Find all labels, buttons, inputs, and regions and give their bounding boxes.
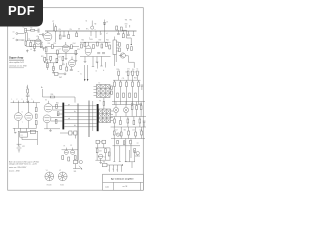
resistor R1 <box>25 28 27 46</box>
capacitor C21 <box>39 33 44 36</box>
svg-text:47k: 47k <box>127 68 130 70</box>
resistor R38 <box>138 80 140 104</box>
tube V3 <box>85 42 91 55</box>
svg-text:TB2: TB2 <box>103 162 106 164</box>
neon NE1 <box>91 21 97 30</box>
svg-text:1: 1 <box>12 99 13 101</box>
wire node A <box>26 30 38 32</box>
ground G2 <box>33 48 36 51</box>
svg-text:in1: in1 <box>13 31 15 33</box>
resistor R30 <box>50 94 54 98</box>
wire right lower <box>111 136 145 139</box>
resistor R57 <box>127 117 129 128</box>
svg-text:6v: 6v <box>80 74 82 76</box>
svg-text:R2: R2 <box>31 28 33 30</box>
svg-text:R74: R74 <box>62 64 65 66</box>
capacitor C15 <box>69 131 72 135</box>
tube V6 <box>14 103 22 121</box>
wire down pair <box>77 104 80 161</box>
svg-text:EL84: EL84 <box>60 185 63 187</box>
switch SW1 <box>73 160 82 163</box>
resistor R54 <box>140 104 143 110</box>
svg-text:B+: B+ <box>41 87 43 89</box>
svg-text:red: red <box>68 118 70 120</box>
wire pair W1 <box>88 101 91 138</box>
svg-text:c3: c3 <box>130 72 132 74</box>
resistor R3 <box>22 40 27 45</box>
resistor R32 <box>127 71 129 80</box>
resistor R81 <box>127 45 129 51</box>
svg-text:R33: R33 <box>134 78 137 80</box>
resistor R65 <box>134 149 136 153</box>
resistor R29 <box>27 85 29 93</box>
wire c15 link <box>60 133 75 139</box>
svg-text:voltages with 20k/V meter d.c.: voltages with 20k/V meter d.c. +-10% <box>9 162 37 165</box>
resistor R50 <box>35 114 37 118</box>
connector P1 <box>113 37 119 55</box>
wire CN1-CN2 link7 <box>64 126 97 128</box>
tube V4 <box>44 99 52 112</box>
wire B+ feed <box>43 89 76 103</box>
resistor R23 <box>119 43 121 47</box>
svg-text:in2: in2 <box>13 38 15 40</box>
wire tl link <box>27 33 41 45</box>
resistor R73 <box>62 56 64 60</box>
svg-text:R19: R19 <box>99 40 102 42</box>
resistor R76 <box>108 152 110 156</box>
resistor R26 <box>120 27 122 31</box>
svg-text:R21: R21 <box>106 39 109 41</box>
wire CN1-CN2 link1 <box>64 105 97 107</box>
connector bar CN1 <box>62 103 64 130</box>
svg-text:100k: 100k <box>90 39 93 41</box>
tick row t1 <box>118 71 140 73</box>
svg-text:220k: 220k <box>116 69 119 71</box>
svg-text:T2: T2 <box>99 83 101 85</box>
svg-text:R46: R46 <box>56 102 59 104</box>
wire lower left <box>13 121 37 132</box>
ground G8 <box>96 57 99 63</box>
ground G4 <box>56 54 59 61</box>
svg-text:D1: D1 <box>106 21 108 23</box>
resistor R8 <box>59 31 61 39</box>
resistor R61 <box>120 127 122 136</box>
resistor R4 <box>30 42 32 46</box>
wire header <box>11 101 41 103</box>
svg-text:BT1: BT1 <box>22 146 25 148</box>
resistor R27 <box>47 61 49 70</box>
svg-text:R12: R12 <box>54 43 57 45</box>
resistor R51 <box>35 121 37 129</box>
resistor R66 <box>30 130 35 133</box>
resistor R5 <box>34 44 36 48</box>
wire bend2 <box>125 56 134 68</box>
label bank2 <box>122 78 137 80</box>
resistor R78 <box>117 140 119 144</box>
resistor R18 <box>93 45 95 49</box>
svg-text:VR1: VR1 <box>74 171 77 173</box>
ground G7 <box>84 57 87 63</box>
resistor R6 <box>40 44 42 48</box>
resistor R35 <box>120 80 122 104</box>
tube base V2 diagram <box>58 172 67 181</box>
wire right mid <box>111 110 147 117</box>
resistor R36 <box>126 80 128 104</box>
title block frame <box>103 174 144 190</box>
wire net1 <box>26 46 43 48</box>
schematic title text <box>9 56 24 60</box>
resistor R19 <box>97 42 99 46</box>
wire bus drop2 <box>95 29 96 38</box>
svg-text:P1: P1 <box>99 100 101 102</box>
svg-text:e: e <box>139 72 140 74</box>
wire bus drop3 <box>100 31 102 35</box>
svg-text:6: 6 <box>22 111 23 113</box>
wire t2 stubs <box>94 87 97 96</box>
wire right lowest <box>113 139 141 146</box>
rectifier bridge cluster <box>96 140 106 148</box>
resistor R46 <box>56 102 59 108</box>
input jack J1 <box>16 33 25 35</box>
resistor R72 <box>56 57 61 63</box>
capacitor C9 <box>26 93 30 102</box>
wire arrow pair R <box>87 65 89 81</box>
wire tb2 <box>107 165 123 172</box>
svg-text:1M: 1M <box>78 29 81 31</box>
fuse F1 <box>64 145 69 154</box>
tube V5 <box>43 115 51 123</box>
svg-text:R16: R16 <box>82 40 85 42</box>
svg-text:47k: 47k <box>59 29 62 31</box>
wire top right stub <box>132 31 135 36</box>
svg-text:8u: 8u <box>137 68 139 70</box>
label PT <box>52 21 54 31</box>
svg-text:4k7: 4k7 <box>115 129 117 131</box>
resistor R28 <box>53 63 55 71</box>
resistor R44 <box>111 91 113 94</box>
resistor R24 <box>119 48 121 52</box>
svg-text:F2: F2 <box>70 145 72 147</box>
ground G5 <box>65 52 68 59</box>
wire right col down <box>125 150 135 168</box>
capacitor C22 <box>127 31 130 35</box>
resistor R64 <box>141 127 143 139</box>
svg-text:TR2: TR2 <box>129 19 132 21</box>
wire tube links <box>51 106 62 121</box>
resistor R79 <box>123 141 125 145</box>
svg-text:C1: C1 <box>23 27 25 29</box>
resistor R74 <box>60 64 65 69</box>
ground G6 <box>75 55 78 62</box>
svg-text:R15: R15 <box>77 49 80 51</box>
resistor R25 <box>116 26 118 30</box>
label bank1 <box>116 68 138 70</box>
title rule <box>9 59 24 61</box>
capacitor C6 <box>102 53 105 54</box>
tube V8 <box>69 57 76 67</box>
resistor R40 <box>123 93 125 98</box>
wire t3 stubs <box>111 111 114 121</box>
input jack J2 <box>16 39 25 41</box>
wire CN1-CN2 link5 <box>64 119 97 121</box>
wire bottom left loop <box>44 123 60 131</box>
tube base V1 diagram <box>45 172 54 181</box>
svg-text:25u: 25u <box>53 68 56 70</box>
svg-text:C4: C4 <box>59 48 61 50</box>
resistor R20 <box>101 44 103 48</box>
svg-text:valve amplifier 2x12: valve amplifier 2x12 <box>9 61 24 64</box>
wire fuse bus <box>62 148 79 151</box>
wire stage2 bottom <box>80 56 111 58</box>
wire CN1-CN2 link2 <box>64 108 97 110</box>
resistor R43 <box>111 86 113 89</box>
potentiometer VR1 <box>73 164 82 173</box>
svg-text:z1: z1 <box>106 33 108 35</box>
wire arrow pair L <box>84 65 86 81</box>
resistor R12 <box>52 43 57 49</box>
svg-text:.05: .05 <box>30 49 32 51</box>
resistor R31 <box>118 71 120 80</box>
svg-text:R14: R14 <box>73 43 76 45</box>
svg-text:SW2: SW2 <box>59 77 62 79</box>
B+ bus wire <box>45 30 137 32</box>
svg-text:2: 2 <box>17 99 18 101</box>
label arrows <box>78 71 82 76</box>
resistor R45 <box>103 98 105 110</box>
svg-text:ECC83: ECC83 <box>47 185 52 187</box>
ground G13 <box>99 159 102 164</box>
svg-text:1k5: 1k5 <box>132 69 134 71</box>
resistor R82 <box>131 47 133 51</box>
svg-text:grn: grn <box>68 104 70 106</box>
label tr marks <box>125 23 130 28</box>
wire mid band <box>44 60 67 67</box>
resistor R9 <box>68 31 70 39</box>
ground G12 <box>14 131 17 134</box>
wire bank bottom <box>112 104 142 106</box>
resistor R68 <box>68 157 70 161</box>
svg-text:gk: gk <box>42 42 44 44</box>
tube V2 <box>62 42 69 52</box>
resistor R41 <box>129 93 131 98</box>
capacitor C19 <box>96 149 102 153</box>
resistor R63 <box>135 127 137 136</box>
label right row <box>115 129 142 131</box>
svg-text:Ayr miniature amplifier: Ayr miniature amplifier <box>111 177 134 180</box>
svg-text:no. 58: no. 58 <box>123 186 128 188</box>
transistor Q1 <box>119 53 126 58</box>
svg-text:V1: V1 <box>46 170 48 172</box>
svg-text:osc: osc <box>137 143 139 145</box>
svg-text:E: E <box>117 169 118 171</box>
resistor R39 <box>117 93 119 98</box>
resistor R56 <box>120 117 122 125</box>
capacitor C1 <box>38 29 39 33</box>
svg-text:blu: blu <box>74 111 76 113</box>
battery BT1 <box>17 144 26 152</box>
svg-text:mains sec. 285-0-285V: mains sec. 285-0-285V <box>9 167 27 169</box>
svg-text:2k2: 2k2 <box>132 129 134 131</box>
lamp LP2 <box>123 107 128 112</box>
svg-text:issue 2 - 1958: issue 2 - 1958 <box>9 170 20 172</box>
terminal block TB2 <box>102 162 107 167</box>
resistor R70 <box>41 56 46 61</box>
svg-text:R30: R30 <box>51 94 54 96</box>
wire rect cluster <box>95 148 110 160</box>
label right row2 <box>117 141 131 143</box>
resistor R53 <box>136 106 138 110</box>
resistor R47 <box>57 112 59 116</box>
capacitor C16 <box>74 131 77 135</box>
capacitor C2 <box>63 31 66 36</box>
diode D2 <box>116 133 119 136</box>
resistor R48 <box>55 119 57 123</box>
resistor R15 <box>75 49 80 55</box>
svg-text:Super Amp: Super Amp <box>9 56 24 60</box>
wire bus drop1 <box>89 31 91 40</box>
svg-text:ht: ht <box>103 69 105 72</box>
PDF badge <box>0 0 43 27</box>
capacitor C10 <box>136 71 138 80</box>
label tb2 pins <box>108 169 117 171</box>
svg-text:R70: R70 <box>41 56 44 58</box>
wire drops to bottom <box>113 146 131 162</box>
svg-text:HT+: HT+ <box>86 29 89 31</box>
transformer T3 core <box>99 109 111 123</box>
resistor R71 <box>50 56 52 60</box>
wire CN1-CN2 link3 <box>64 112 97 114</box>
ground G11 <box>49 129 52 132</box>
connector bar CN2 <box>97 104 99 131</box>
capacitor C7 <box>117 30 120 35</box>
svg-text:3: 3 <box>22 99 23 101</box>
resistor R22 <box>109 45 111 49</box>
wire right low <box>111 126 147 128</box>
node dot2 <box>122 164 123 165</box>
switch SW2 <box>54 72 66 78</box>
svg-text:N: N <box>113 169 114 171</box>
svg-text:PT: PT <box>52 21 54 23</box>
ground G10 <box>26 101 29 104</box>
resistor R14 <box>71 43 76 49</box>
svg-text:V2: V2 <box>59 170 61 172</box>
capacitor C20 <box>105 149 107 153</box>
wire stage2 top <box>80 41 111 43</box>
wire CN1-CN2 link4 <box>64 115 97 117</box>
resistor R17 <box>84 43 86 47</box>
svg-text:22k: 22k <box>70 29 73 31</box>
wire relay top <box>18 131 38 146</box>
transformer T2 core <box>97 85 111 98</box>
label mid band <box>47 65 55 70</box>
resistor R69 <box>74 156 76 160</box>
label pins row <box>12 99 33 101</box>
ground G3 <box>46 54 49 61</box>
tube V1a <box>36 36 41 44</box>
svg-text:L: L <box>108 169 109 171</box>
resistor R77 <box>122 31 124 38</box>
border frame (decorative) <box>8 8 144 191</box>
resistor R16 <box>81 44 83 48</box>
wire W2 <box>92 101 94 131</box>
wire d1 down <box>105 28 108 43</box>
svg-text:d4: d4 <box>134 71 136 73</box>
resistor R13 <box>57 48 61 54</box>
resistor R67 <box>62 156 64 160</box>
subtitle rule <box>9 67 24 69</box>
resistor R11 <box>45 43 50 52</box>
resistor R58 <box>133 117 135 125</box>
ground G1 <box>26 50 29 53</box>
resistor R52 <box>131 104 134 110</box>
svg-text:C2: C2 <box>28 38 30 40</box>
svg-text:5: 5 <box>32 99 33 101</box>
relay K1 <box>20 132 28 137</box>
fuse F2 <box>70 145 74 154</box>
wire stage1 bottom <box>45 53 78 55</box>
resistor R42 <box>135 93 137 98</box>
resistor R34 <box>114 80 116 104</box>
label v6v7 <box>22 111 23 124</box>
label above bases <box>46 170 61 172</box>
capacitor C18 <box>70 67 73 71</box>
label link labels <box>68 104 76 127</box>
resistor R21 <box>106 43 108 47</box>
resistor R75 <box>66 67 68 71</box>
resistor R37 <box>132 80 134 104</box>
svg-text:R11: R11 <box>48 43 51 45</box>
wire CN1-CN2 link6 <box>64 122 97 124</box>
svg-text:C19: C19 <box>99 151 102 153</box>
resistor R59 <box>139 117 141 128</box>
capacitor C12 <box>141 85 144 90</box>
wire connector drops <box>115 55 117 67</box>
svg-text:R52: R52 <box>131 104 134 106</box>
capacitor C23 <box>42 47 44 50</box>
wire drops mid right <box>92 57 106 69</box>
svg-text:C11: C11 <box>122 78 125 80</box>
wire right top <box>112 102 145 108</box>
svg-text:7: 7 <box>22 122 23 124</box>
svg-text:R4: R4 <box>32 41 34 43</box>
wire stage1 top <box>45 46 79 48</box>
ground G9 <box>52 71 55 74</box>
resistor R60 <box>113 127 115 139</box>
wire bank top <box>113 79 141 81</box>
svg-text:K1: K1 <box>21 135 23 137</box>
lamp LP1 <box>113 107 118 112</box>
svg-text:V1: V1 <box>36 36 38 38</box>
svg-text:V4: V4 <box>45 99 47 101</box>
svg-text:PDF: PDF <box>8 3 35 18</box>
resistor R55 <box>114 117 116 128</box>
svg-text:C17: C17 <box>58 57 61 59</box>
svg-text:68k: 68k <box>124 130 127 132</box>
resistor R10 <box>76 31 78 37</box>
svg-text:scale: scale <box>105 186 109 188</box>
svg-text:0v: 0v <box>96 70 98 72</box>
resistor R33 <box>132 71 134 80</box>
resistor R80 <box>130 140 132 144</box>
resistor R2 <box>31 28 35 31</box>
svg-text:schematic rev 2.1 1958: schematic rev 2.1 1958 <box>9 65 27 68</box>
tube V7 <box>25 103 33 121</box>
svg-text:R3: R3 <box>22 40 24 42</box>
capacitor C5 <box>97 53 100 54</box>
svg-text:4: 4 <box>27 99 28 101</box>
diode D1 <box>103 20 108 28</box>
wire bend1 <box>121 30 131 44</box>
